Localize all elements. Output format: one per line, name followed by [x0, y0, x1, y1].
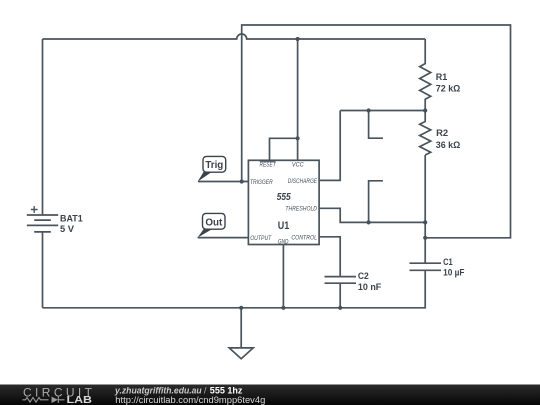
- junction: GND pin on rail: [281, 306, 285, 310]
- svg-text:555 1hz: 555 1hz: [210, 386, 243, 396]
- wire: stray stub B to threshold wire: [369, 181, 383, 223]
- wire: THRESHOLD net: [319, 208, 425, 222]
- svg-text:Trig: Trig: [205, 160, 223, 171]
- svg-text:/: /: [204, 386, 207, 396]
- junction: right loop / C1: [423, 236, 427, 240]
- wire: R2 bottom to C1 top: [424, 155, 426, 263]
- node Trig flag: [198, 156, 226, 181]
- svg-text:http://circuitlab.com/cnd9mpp6: http://circuitlab.com/cnd9mpp6tev4g: [115, 395, 265, 405]
- resistor R1: [420, 39, 461, 111]
- wire: TRIGGER pin wire: [198, 181, 248, 183]
- wire: stray stub A from R1/R2 wire: [369, 111, 383, 139]
- svg-text:DISCHARGE: DISCHARGE: [288, 178, 318, 185]
- svg-text:Out: Out: [205, 218, 223, 229]
- junction: threshold / R2: [423, 220, 427, 224]
- svg-text:GND: GND: [278, 239, 289, 246]
- battery BAT1: [27, 206, 83, 308]
- capacitor C1: [410, 256, 465, 277]
- wire: battery top lead (left vertical): [42, 39, 44, 215]
- wire: trig net - vertical, top right loop down to C1 top junction: [242, 25, 511, 238]
- svg-text:10 nF: 10 nF: [358, 281, 382, 292]
- svg-text:R1: R1: [436, 71, 448, 82]
- svg-text:THRESHOLD: THRESHOLD: [285, 206, 317, 213]
- svg-text:OUTPUT: OUTPUT: [250, 235, 272, 242]
- wire: C2 bottom lead: [339, 283, 341, 308]
- svg-text:VCC: VCC: [292, 162, 304, 169]
- wire: ground rail and C1 bottom lead: [43, 270, 426, 308]
- pin RESET: [260, 161, 277, 168]
- junction: RESET / VCC wire: [296, 136, 300, 140]
- svg-text:RESET: RESET: [260, 162, 277, 169]
- svg-text:TRIGGER: TRIGGER: [250, 179, 273, 186]
- wire: top net from battery + to R1 with hop over trig vertical: [43, 34, 426, 39]
- svg-text:CONTROL: CONTROL: [291, 234, 317, 241]
- wire: DISCHARGE to R1/R2 junction: [319, 111, 340, 181]
- svg-text:C2: C2: [358, 270, 369, 281]
- svg-text:U1: U1: [278, 220, 290, 232]
- wire: CONTROL to C2 top: [319, 237, 340, 277]
- junction: C2 on rail: [338, 306, 342, 310]
- wire: VCC vertical: [297, 39, 299, 160]
- junction: stub A on R1/R2 wire: [367, 108, 371, 112]
- junction: ground symbol: [239, 306, 243, 310]
- ground: [229, 308, 253, 359]
- svg-text:5 V: 5 V: [60, 223, 75, 234]
- junction: VCC / top wire: [296, 37, 300, 41]
- svg-text:C1: C1: [443, 256, 453, 267]
- op-amp U1 555 timer box: [248, 160, 319, 245]
- svg-text:10 µF: 10 µF: [443, 266, 465, 277]
- footer bar: [0, 385, 540, 405]
- node Out flag: [198, 213, 225, 237]
- wire: OUTPUT pin wire: [198, 237, 249, 239]
- svg-text:y.zhuatgriffith.edu.au: y.zhuatgriffith.edu.au: [114, 386, 202, 396]
- wire: RESET to VCC: [270, 138, 298, 160]
- resistor R2: [420, 111, 461, 156]
- logo resistor-diode glyph: [23, 398, 49, 403]
- junction: trigger: [240, 179, 244, 183]
- junction: stub B on threshold wire: [367, 220, 371, 224]
- junction: R1/R2: [423, 108, 427, 112]
- svg-text:R2: R2: [436, 127, 448, 138]
- svg-text:72 kΩ: 72 kΩ: [436, 82, 461, 93]
- svg-text:LAB: LAB: [67, 395, 93, 405]
- svg-text:36 kΩ: 36 kΩ: [436, 139, 461, 150]
- wire: R1/R2 junction horizontal: [340, 110, 425, 112]
- wire: GND pin lead: [282, 245, 284, 308]
- capacitor C2: [325, 270, 382, 292]
- svg-text:555: 555: [277, 191, 291, 203]
